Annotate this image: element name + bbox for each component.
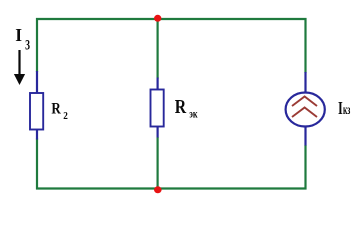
wire middle lower <box>157 137 159 190</box>
wire bottom <box>36 187 307 189</box>
current source Ikz <box>286 72 325 146</box>
wire middle upper <box>157 18 159 79</box>
wire right lower <box>304 145 306 190</box>
svg-text:эк: эк <box>189 109 197 121</box>
label Rek <box>175 96 198 120</box>
svg-text:R: R <box>51 101 61 118</box>
svg-text:I: I <box>15 25 22 45</box>
node bottom junction <box>154 186 162 193</box>
label R2 <box>51 101 68 123</box>
wire left upper <box>36 18 38 72</box>
svg-text:3: 3 <box>25 37 30 53</box>
current arrow I3 <box>14 50 25 85</box>
resistor Rek <box>151 78 164 138</box>
svg-text:кз: кз <box>343 103 350 118</box>
label Ikz <box>338 98 350 118</box>
wire right upper <box>304 18 306 73</box>
svg-text:R: R <box>175 96 187 118</box>
node top junction <box>154 15 161 22</box>
label I3 <box>15 25 30 53</box>
wire left lower <box>36 139 38 190</box>
wire top <box>36 18 307 20</box>
svg-text:2: 2 <box>63 111 68 122</box>
resistor R2 <box>30 71 43 140</box>
